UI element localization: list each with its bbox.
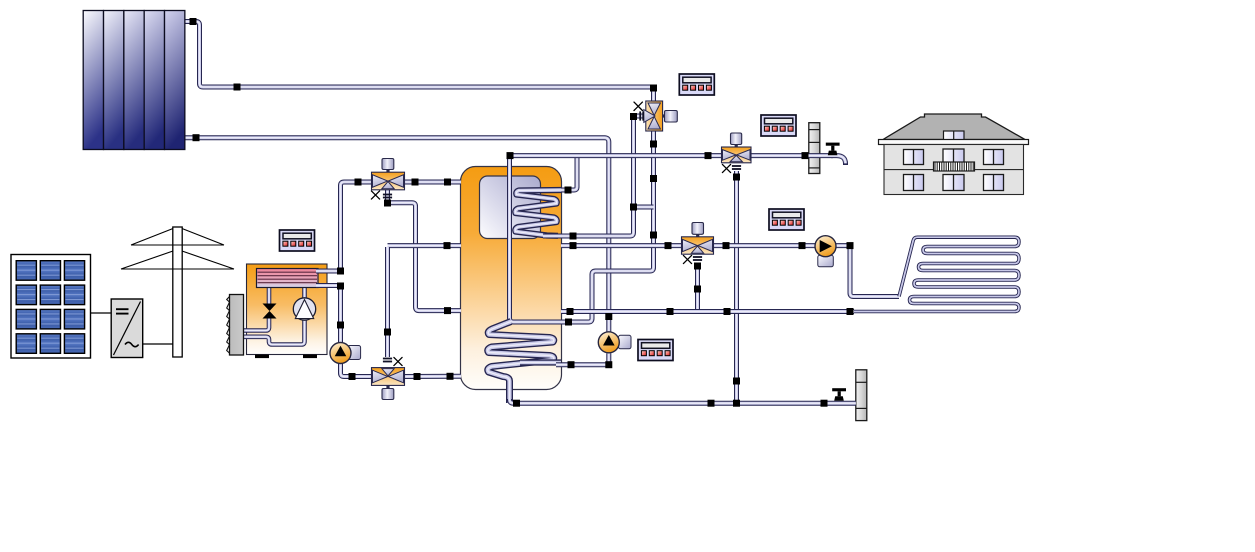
- pipe bottom valve to tank port4: [404, 374, 461, 379]
- controller heat pump: [280, 230, 315, 251]
- house roof: [883, 114, 1025, 140]
- storage tank body: [461, 167, 562, 390]
- actuator MV: [735, 144, 738, 149]
- union BV top: [383, 358, 392, 363]
- balcony railing: [934, 162, 975, 171]
- node solar riser: [650, 175, 657, 182]
- windows lower floor: [904, 175, 924, 191]
- node cold tee: [733, 400, 740, 407]
- heat exchanger coil upper (DHW coil): [515, 190, 561, 236]
- node HP flow: [355, 179, 362, 186]
- node FH return c: [847, 308, 854, 315]
- union MV bottom: [732, 165, 741, 170]
- pipe condenser supply port: [316, 269, 341, 274]
- x-mark TV: [371, 191, 379, 199]
- pipe top valve B-port down to tank port3: [388, 190, 462, 311]
- heat pump body: [247, 264, 328, 355]
- actuator BV: [386, 385, 389, 390]
- wire PV to inverter: [91, 312, 112, 314]
- pipe FH pump to serpentine: [836, 246, 900, 297]
- node FH valve drop1: [694, 263, 701, 270]
- node HP outlet: [337, 283, 344, 290]
- power pole: [173, 227, 182, 357]
- valve body V1: [644, 101, 663, 131]
- node FH return a: [667, 308, 674, 315]
- pipe bottom valve B-port riser: [385, 247, 390, 357]
- inner DHW tank: [480, 176, 541, 239]
- node P1 out: [349, 373, 356, 380]
- x-mark BV: [394, 357, 402, 365]
- node tank port4: [447, 373, 454, 380]
- pipe FH valve to FH pump: [713, 243, 816, 248]
- solar collector: [83, 11, 185, 150]
- node coil outlet: [565, 187, 572, 194]
- node tank port1: [444, 179, 451, 186]
- pipe top valve to heat pump in: [341, 182, 373, 271]
- actuator V1: [661, 114, 666, 117]
- node tap line: [802, 152, 809, 159]
- node port4 line: [414, 373, 421, 380]
- node FH flow tank: [570, 242, 577, 249]
- node flow line: [234, 84, 241, 91]
- node before FH pump: [799, 242, 806, 249]
- actuator TV: [386, 169, 389, 173]
- pipe cold water riser: [734, 171, 739, 405]
- node cold feed mid: [708, 400, 715, 407]
- node above P1: [337, 322, 344, 329]
- pump P1 heat pump loop: [330, 343, 361, 364]
- union FV bottom: [693, 256, 702, 261]
- expansion valve: [263, 304, 277, 319]
- floor heating serpentine: [853, 237, 1019, 311]
- pipe FH return to tank: [561, 309, 854, 314]
- pipe top valve to tank port1: [404, 180, 461, 185]
- controller DHW: [761, 115, 796, 136]
- mains wall symbol cold: [856, 370, 867, 421]
- valve body FV: [682, 237, 714, 254]
- pipe solar coil outlet stub: [520, 359, 561, 365]
- pump P3 floor heating: [815, 236, 836, 267]
- pipe heat pump out to pump P1: [338, 286, 343, 343]
- pipe cold water feed: [510, 399, 856, 403]
- pipe tank top port stub: [510, 156, 513, 167]
- pipe collector return down to solar pump: [185, 138, 609, 332]
- eaves band: [879, 140, 1029, 145]
- node below MV: [733, 174, 740, 181]
- pipe FH valve down to return: [695, 263, 700, 310]
- node HP inlet: [337, 268, 344, 275]
- node solar return: [605, 313, 612, 320]
- valve body TV: [372, 172, 405, 190]
- union V1 left: [639, 111, 644, 120]
- pipe pump P1 to bottom valve: [341, 364, 373, 377]
- node cold riser: [733, 378, 740, 385]
- node FH return tank: [567, 308, 574, 315]
- pipe tank center drop to solar port: [510, 154, 562, 323]
- pipe coil top outlet to DHW line: [541, 158, 578, 190]
- node DHW line: [705, 152, 712, 159]
- heat exchanger coil lower (solar coil): [488, 322, 554, 404]
- pipe mixed water to tap: [751, 153, 834, 158]
- cold water valve: [832, 388, 846, 401]
- node bypass elbow: [630, 113, 637, 120]
- node B riser: [384, 329, 391, 336]
- node coil inlet: [568, 361, 575, 368]
- facade: [884, 145, 1024, 195]
- node collector return: [193, 134, 200, 141]
- pipe solar pump to coil: [556, 354, 609, 365]
- node cold feed tank: [513, 400, 520, 407]
- x-mark FV: [683, 255, 691, 263]
- condenser: [257, 269, 319, 288]
- heat pump feet: [255, 355, 269, 359]
- pipe condenser return port: [316, 283, 341, 288]
- PV panel: [11, 255, 91, 359]
- node DHW start: [507, 152, 514, 159]
- node solar pump low: [605, 361, 612, 368]
- tap spout: [831, 156, 846, 164]
- tap valve handle: [826, 143, 840, 156]
- node solar port: [565, 319, 572, 326]
- inverter: [111, 299, 143, 358]
- pipe collector flow (top) to 3-way valve: [185, 22, 654, 102]
- actuator FV: [696, 234, 699, 239]
- pipe valve bypass down to DHW coil return: [543, 116, 646, 236]
- node port1 line: [412, 179, 419, 186]
- node solar riser low: [650, 232, 657, 239]
- node FH return b: [724, 308, 731, 315]
- pipe mid port line: [388, 243, 462, 248]
- x-mark MV: [722, 164, 730, 172]
- node FH valve out: [723, 242, 730, 249]
- mains wall symbol hot tap: [809, 123, 820, 174]
- controller solar: [679, 74, 714, 95]
- compressor: [293, 298, 315, 320]
- union TV bottom: [383, 194, 392, 199]
- pipe tank to FH valve: [561, 243, 682, 248]
- node tank port3: [444, 307, 451, 314]
- node bypass: [630, 204, 637, 211]
- pipe valve down and across to tank solar port: [559, 131, 654, 322]
- valve body MV: [722, 147, 752, 163]
- node below valve: [650, 141, 657, 148]
- node FH flow: [665, 242, 672, 249]
- dormer window: [944, 131, 965, 142]
- wire inverter to grid: [143, 343, 174, 345]
- heat pump internal refrigerant pipes: [267, 285, 272, 305]
- node FH elbow: [847, 242, 854, 249]
- node coil return: [570, 233, 577, 240]
- node tank port2: [444, 242, 451, 249]
- windows upper floor: [904, 150, 924, 165]
- node FH valve drop2: [694, 286, 701, 293]
- valve body BV: [372, 368, 405, 386]
- evaporator: [227, 295, 244, 356]
- pipe bypass link: [634, 205, 654, 210]
- x-mark V1: [634, 102, 642, 110]
- pipe DHW hot water line: [512, 153, 722, 158]
- node valve riser top: [650, 85, 657, 92]
- node cold feed right: [821, 400, 828, 407]
- node collector flow: [190, 18, 197, 25]
- controller floor heating: [769, 209, 804, 230]
- node valve B: [384, 200, 391, 207]
- controller solar pump: [638, 340, 673, 361]
- pump P2 solar loop: [598, 332, 631, 353]
